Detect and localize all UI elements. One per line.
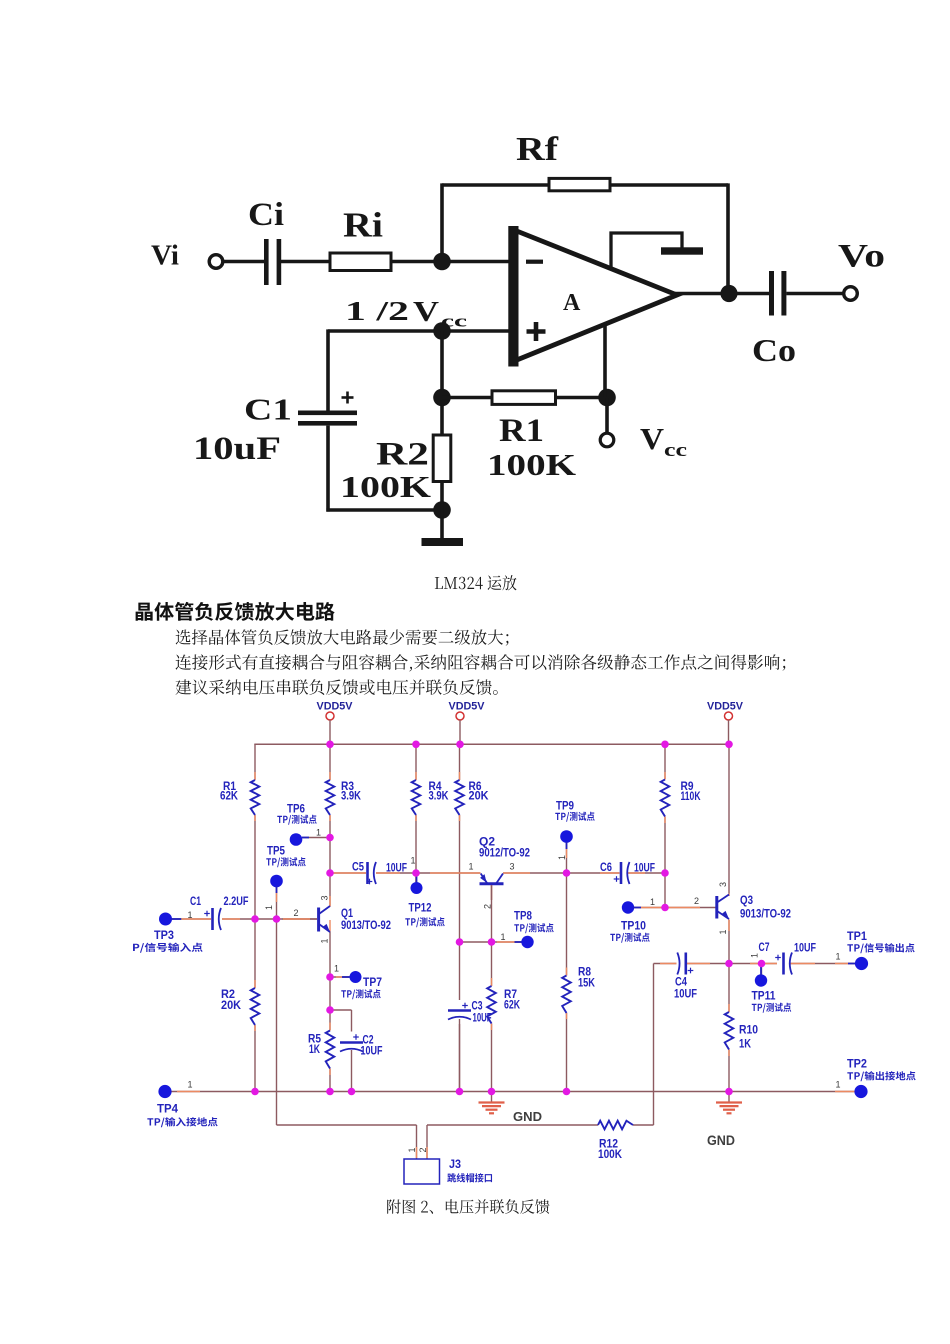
svg-text:2: 2 <box>294 908 299 918</box>
svg-text:V: V <box>640 421 665 456</box>
svg-text:1: 1 <box>501 932 506 942</box>
svg-text:1: 1 <box>316 828 321 838</box>
svg-text:10UF: 10UF <box>794 941 816 955</box>
svg-text:3.9K: 3.9K <box>341 789 361 803</box>
svg-text:C1: C1 <box>244 392 292 427</box>
svg-text:1: 1 <box>334 964 339 974</box>
svg-text:10uF: 10uF <box>193 431 281 467</box>
svg-text:10UF: 10UF <box>473 1011 492 1025</box>
svg-text:20K: 20K <box>469 789 489 803</box>
svg-text:cc: cc <box>664 440 687 461</box>
svg-text:R10: R10 <box>739 1023 758 1037</box>
svg-text:100K: 100K <box>487 447 576 482</box>
svg-text:C7: C7 <box>759 940 770 954</box>
svg-text:TP4: TP4 <box>157 1102 178 1116</box>
svg-text:2: 2 <box>694 896 699 906</box>
svg-text:TP7: TP7 <box>363 975 382 989</box>
svg-text:C5: C5 <box>352 860 364 874</box>
svg-text:A: A <box>563 290 581 316</box>
svg-text:1: 1 <box>557 855 567 860</box>
svg-text:J3: J3 <box>449 1157 461 1171</box>
svg-text:R1: R1 <box>499 413 544 449</box>
svg-text:1: 1 <box>188 1080 193 1090</box>
svg-text:Ri: Ri <box>343 206 383 245</box>
svg-text:3: 3 <box>510 862 515 872</box>
svg-text:2: 2 <box>418 1147 428 1152</box>
svg-text:3: 3 <box>320 895 330 900</box>
svg-text:2: 2 <box>483 904 493 909</box>
svg-text:TP5: TP5 <box>267 844 285 858</box>
svg-text:10UF: 10UF <box>386 861 407 875</box>
svg-text:VDD5V: VDD5V <box>317 701 354 713</box>
svg-text:V: V <box>413 296 439 328</box>
svg-text:Ci: Ci <box>248 197 284 233</box>
svg-text:110K: 110K <box>681 789 701 803</box>
svg-text:VDD5V: VDD5V <box>449 701 486 713</box>
svg-text:9012/TO-92: 9012/TO-92 <box>479 846 530 860</box>
svg-text:20K: 20K <box>221 998 241 1012</box>
svg-text:TP2: TP2 <box>847 1057 867 1071</box>
svg-text:1: 1 <box>836 1080 841 1090</box>
svg-text:C1: C1 <box>190 894 201 908</box>
svg-text:100K: 100K <box>340 469 431 504</box>
svg-text:1K: 1K <box>309 1042 320 1056</box>
svg-text:15K: 15K <box>578 976 595 990</box>
svg-text:10UF: 10UF <box>634 861 655 875</box>
svg-text:Vo: Vo <box>838 239 885 275</box>
svg-text:1: 1 <box>411 856 416 866</box>
svg-text:2.2UF: 2.2UF <box>224 894 249 908</box>
svg-text:10UF: 10UF <box>674 987 697 1001</box>
svg-text:TP1: TP1 <box>847 929 867 943</box>
svg-text:1: 1 <box>407 1147 417 1152</box>
svg-text:1: 1 <box>836 952 841 962</box>
svg-text:1: 1 <box>469 862 474 872</box>
svg-text:cc: cc <box>441 312 468 331</box>
svg-text:9013/TO-92: 9013/TO-92 <box>341 918 391 932</box>
svg-text:9013/TO-92: 9013/TO-92 <box>740 907 791 921</box>
svg-text:1: 1 <box>320 938 330 943</box>
svg-text:TP9: TP9 <box>556 799 574 813</box>
svg-text:Rf: Rf <box>516 131 559 168</box>
svg-text:TP6: TP6 <box>287 802 305 816</box>
svg-text:100K: 100K <box>598 1147 622 1161</box>
svg-text:1 /2: 1 /2 <box>345 296 409 326</box>
svg-text:TP12: TP12 <box>409 901 432 915</box>
svg-text:1K: 1K <box>739 1037 751 1051</box>
svg-text:TP11: TP11 <box>752 989 776 1003</box>
svg-text:3: 3 <box>718 882 728 887</box>
svg-text:3.9K: 3.9K <box>429 789 449 803</box>
svg-text:GND: GND <box>513 1109 542 1124</box>
svg-text:1: 1 <box>264 905 274 910</box>
svg-text:1: 1 <box>718 929 728 934</box>
svg-text:C6: C6 <box>600 860 612 874</box>
svg-text:1: 1 <box>188 910 193 920</box>
svg-text:R2: R2 <box>376 437 429 473</box>
svg-text:62K: 62K <box>504 998 520 1012</box>
svg-text:1: 1 <box>650 897 655 907</box>
svg-text:TP8: TP8 <box>514 909 532 923</box>
svg-text:TP3: TP3 <box>154 928 174 942</box>
svg-text:1: 1 <box>750 953 760 958</box>
svg-text:TP10: TP10 <box>621 919 646 933</box>
svg-text:VDD5V: VDD5V <box>707 701 744 713</box>
svg-text:Co: Co <box>752 332 796 368</box>
svg-text:Q3: Q3 <box>740 893 753 907</box>
svg-text:Vi: Vi <box>151 240 179 272</box>
svg-text:10UF: 10UF <box>361 1044 383 1058</box>
svg-text:62K: 62K <box>220 789 238 803</box>
svg-text:GND: GND <box>707 1133 735 1148</box>
